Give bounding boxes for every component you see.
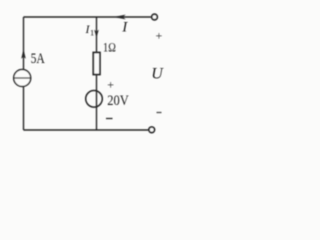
minus sign port U [157, 112, 162, 114]
wire bottom horizontal [24, 129, 149, 131]
svg-text:+: + [156, 29, 163, 43]
svg-text:I: I [121, 20, 128, 36]
arrow current I left on top wire [114, 15, 126, 20]
current source bar [14, 77, 31, 79]
wire middle branch lower [96, 75, 98, 131]
current source IS 5A circle [14, 70, 31, 87]
svg-text:+: + [107, 77, 114, 91]
svg-text:U: U [151, 66, 164, 83]
resistor R 1ohm body [93, 53, 100, 75]
terminal top right [152, 14, 158, 20]
svg-text:20V: 20V [107, 93, 129, 109]
minus sign voltage source [106, 118, 113, 120]
svg-text:1Ω: 1Ω [103, 41, 116, 55]
arrow current IS up [21, 49, 26, 59]
svg-text:1: 1 [90, 28, 94, 38]
wire left vertical [23, 17, 25, 130]
svg-text:5A: 5A [31, 51, 46, 67]
wire top horizontal [24, 16, 151, 18]
terminal bottom right [149, 127, 155, 133]
voltage source US 20V circle [86, 91, 103, 108]
arrow current I1 down [94, 30, 99, 38]
wire middle branch upper [96, 17, 98, 53]
